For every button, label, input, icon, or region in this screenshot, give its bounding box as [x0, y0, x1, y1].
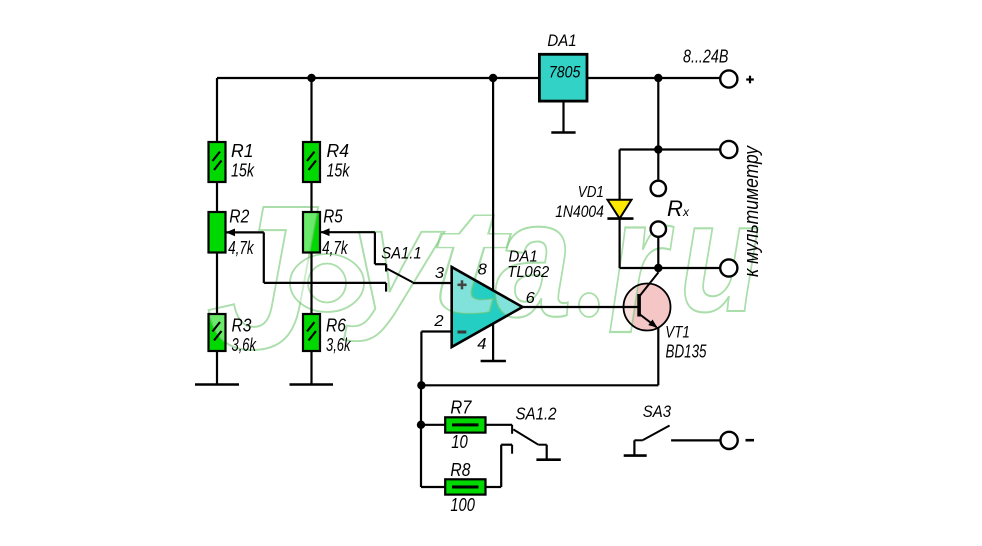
svg-text:4,7k: 4,7k: [322, 238, 348, 258]
svg-text:R: R: [667, 196, 683, 221]
svg-text:R1: R1: [231, 141, 254, 161]
svg-text:10: 10: [451, 432, 468, 452]
svg-text:VT1: VT1: [665, 323, 690, 342]
svg-text:R6: R6: [326, 315, 347, 335]
svg-text:15k: 15k: [231, 160, 255, 180]
svg-text:к мультиметру: к мультиметру: [741, 145, 763, 277]
svg-text:R2: R2: [229, 207, 249, 227]
svg-text:TL062: TL062: [507, 264, 549, 281]
svg-text:x: x: [682, 205, 690, 219]
svg-text:R5: R5: [323, 207, 343, 227]
svg-text:4,7k: 4,7k: [228, 238, 254, 258]
svg-text:R3: R3: [232, 315, 252, 335]
svg-text:SA3: SA3: [643, 402, 672, 421]
svg-text:4: 4: [477, 336, 486, 353]
svg-text:DA1: DA1: [509, 248, 538, 265]
svg-text:15k: 15k: [327, 160, 351, 180]
svg-text:6: 6: [526, 290, 535, 307]
svg-text:3,6k: 3,6k: [232, 335, 257, 355]
svg-text:BD135: BD135: [666, 342, 708, 362]
svg-text:8: 8: [478, 261, 487, 278]
svg-text:8...24В: 8...24В: [683, 47, 728, 67]
svg-text:3: 3: [435, 265, 444, 282]
svg-text:R4: R4: [327, 141, 350, 161]
svg-text:SA1.1: SA1.1: [381, 245, 421, 263]
svg-text:R7: R7: [450, 398, 472, 418]
svg-text:SA1.2: SA1.2: [516, 404, 557, 424]
svg-text:R8: R8: [450, 460, 470, 480]
svg-text:VD1: VD1: [578, 184, 604, 201]
svg-text:3,6k: 3,6k: [326, 335, 351, 355]
svg-text:1N4004: 1N4004: [555, 202, 604, 221]
svg-text:DA1: DA1: [547, 32, 576, 50]
svg-text:7805: 7805: [549, 64, 581, 82]
svg-text:2: 2: [433, 313, 443, 330]
svg-text:100: 100: [450, 495, 475, 515]
